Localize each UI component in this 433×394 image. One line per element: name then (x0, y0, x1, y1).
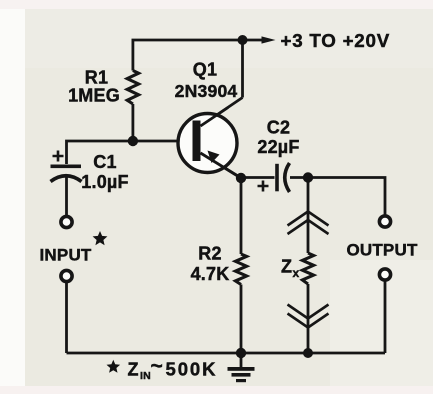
svg-text:OUTPUT: OUTPUT (346, 241, 418, 260)
svg-text:x: x (293, 266, 300, 280)
svg-text:1.0µF: 1.0µF (81, 172, 128, 192)
svg-text:C2: C2 (267, 118, 290, 138)
svg-text:R1: R1 (85, 68, 108, 88)
svg-text:2N3904: 2N3904 (175, 81, 238, 101)
svg-text:IN: IN (140, 370, 151, 382)
svg-text:INPUT: INPUT (40, 246, 92, 265)
svg-text:C1: C1 (93, 152, 116, 172)
svg-text:4.7K: 4.7K (191, 264, 230, 284)
svg-text:R2: R2 (198, 244, 221, 264)
svg-text:Z: Z (281, 257, 292, 277)
svg-text:500K: 500K (166, 359, 218, 380)
svg-text:Z: Z (128, 360, 139, 380)
svg-text:22µF: 22µF (257, 137, 299, 157)
svg-text:~: ~ (151, 355, 163, 378)
svg-text:Q1: Q1 (193, 60, 217, 80)
svg-text:+3 TO +20V: +3 TO +20V (281, 30, 390, 51)
svg-text:1MEG: 1MEG (68, 86, 120, 106)
